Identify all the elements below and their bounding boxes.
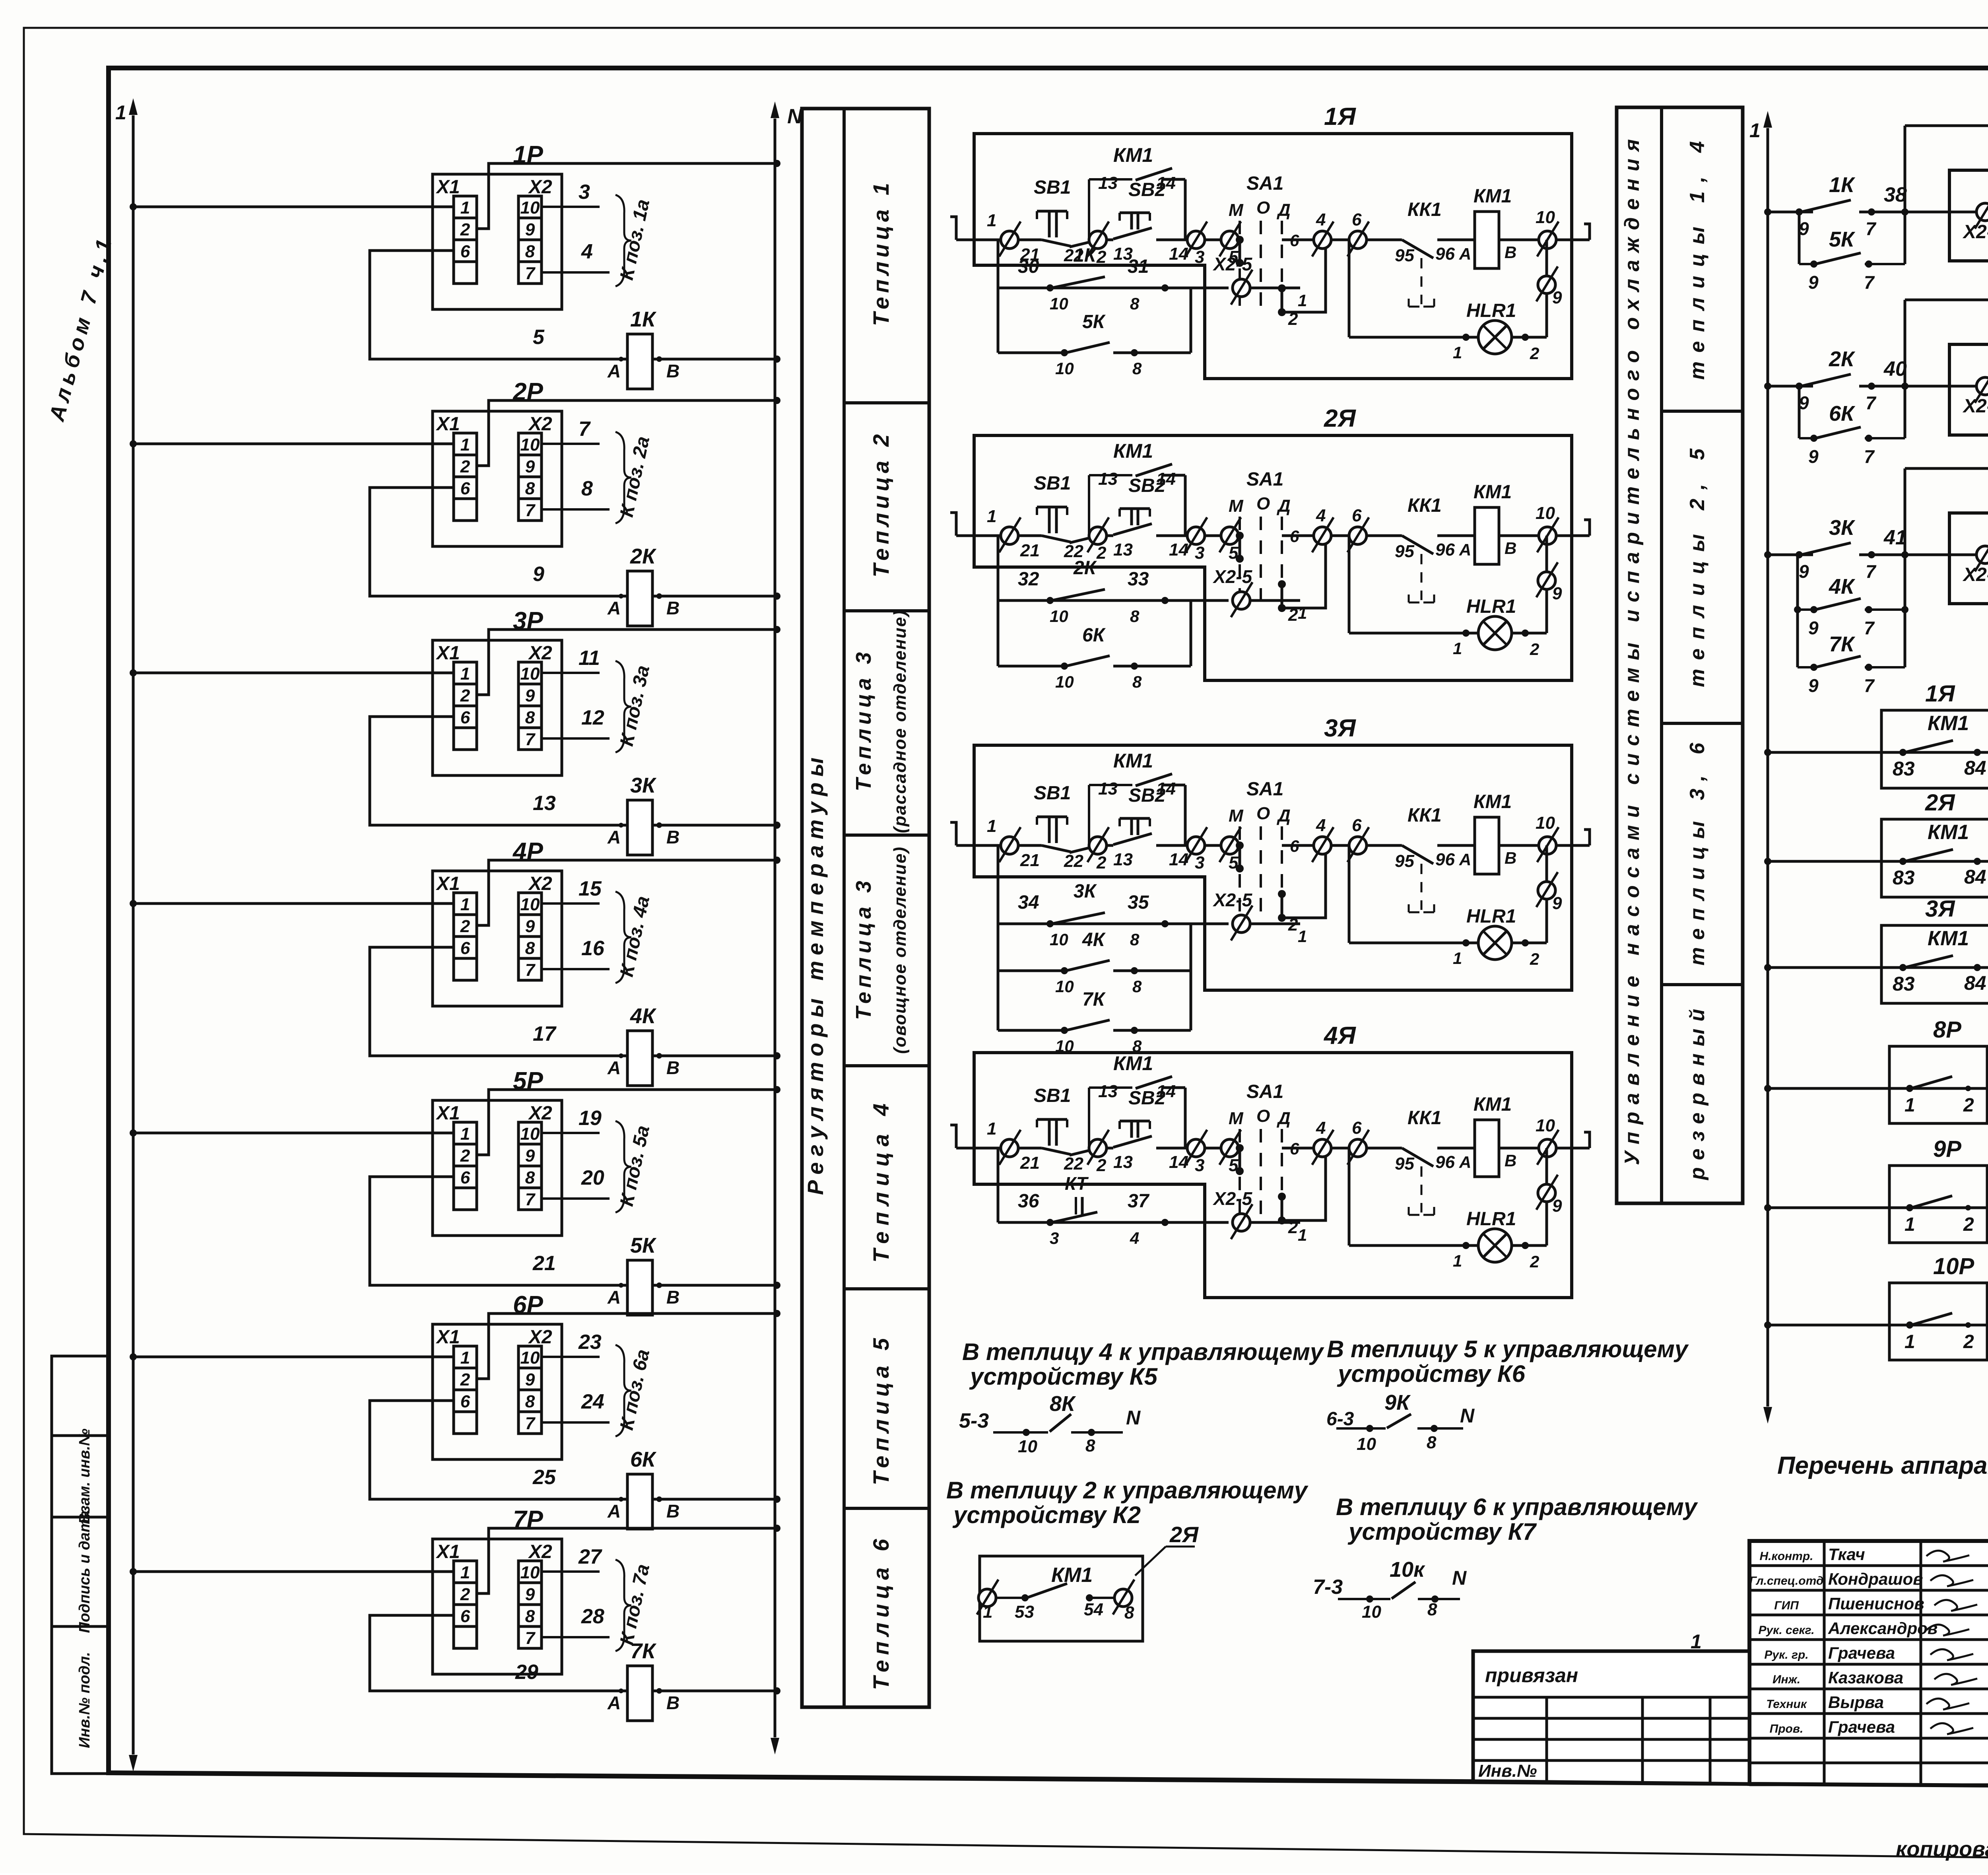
svg-text:4: 4 (1316, 210, 1326, 229)
relay box 1Я (1949, 170, 1988, 261)
svg-text:Вырва: Вырва (1828, 1693, 1884, 1712)
svg-text:13: 13 (533, 792, 556, 815)
svg-text:20: 20 (581, 1166, 604, 1189)
contact КМ1 83-84 (2Я) (1905, 849, 1953, 861)
svg-text:95: 95 (1395, 246, 1414, 265)
svg-text:2Я: 2Я (1324, 405, 1356, 432)
svg-text:2: 2 (1530, 950, 1539, 968)
relay box 3Я (1949, 513, 1988, 604)
relay circuit box 3Я (974, 745, 1572, 990)
svg-text:4К: 4К (630, 1004, 657, 1028)
wire 2К to N bus (652, 595, 777, 598)
svg-text:7-3: 7-3 (1313, 1576, 1343, 1599)
svg-text:Х2-1: Х2-1 (1962, 564, 1988, 585)
junction on bus N (773, 593, 780, 600)
svg-text:В теплицу 4 к управляющему: В теплицу 4 к управляющему (962, 1339, 1324, 1365)
svg-text:11: 11 (579, 647, 600, 670)
svg-text:В: В (666, 361, 679, 381)
svg-text:8: 8 (1130, 294, 1140, 313)
svg-text:2: 2 (460, 457, 470, 476)
svg-text:10: 10 (1050, 294, 1068, 313)
svg-text:1: 1 (460, 1348, 470, 1368)
junction on bus N (773, 1310, 780, 1317)
bypass contact 5К (1798, 212, 1801, 264)
svg-text:А: А (607, 1501, 621, 1521)
svg-text:2: 2 (1096, 247, 1107, 267)
svg-text:9: 9 (1552, 288, 1562, 307)
contact circle 2 (3Я) (1089, 837, 1107, 854)
svg-text:7: 7 (1864, 675, 1875, 696)
svg-text:3: 3 (1195, 247, 1204, 267)
svg-text:А: А (607, 1287, 621, 1308)
svg-text:теплицы 3, 6: теплицы 3, 6 (1686, 742, 1709, 966)
wire bus1 to X1-1 of 7Р (133, 1570, 454, 1573)
svg-text:SA1: SA1 (1246, 1081, 1283, 1102)
svg-text:Гл.спец.отд: Гл.спец.отд (1749, 1574, 1824, 1587)
bypass contact 7К (3Я) (998, 1029, 1066, 1032)
wire 27 from X2-10 (542, 1570, 600, 1573)
main wire (3Я) (1018, 844, 1042, 847)
bus 1 (right) (1767, 128, 1769, 1407)
svg-text:3Я: 3Я (1925, 896, 1955, 922)
wire 4К to N bus (652, 1055, 777, 1057)
svg-text:7: 7 (579, 418, 591, 441)
svg-text:Х2-1: Х2-1 (1962, 222, 1988, 243)
svg-text:9Р: 9Р (1933, 1136, 1961, 1162)
svg-text:Рук. гр.: Рук. гр. (1764, 1648, 1808, 1661)
wire X1-6 loop (1Р) (370, 251, 627, 359)
svg-text:5К: 5К (1082, 311, 1106, 332)
svg-text:8: 8 (1130, 607, 1140, 626)
svg-text:95: 95 (1395, 542, 1414, 561)
svg-text:4Я: 4Я (1323, 1022, 1356, 1049)
exit hook (1Я) (1584, 224, 1590, 240)
contact circle 10 (1Я) (1539, 231, 1556, 249)
bypass contact 13к (1905, 467, 1988, 470)
svg-text:41: 41 (1883, 526, 1907, 549)
wire X1-2 jog to N bus (1Р) (477, 163, 777, 229)
bypass return vertical (1Я) (1190, 288, 1192, 353)
svg-text:Ткач: Ткач (1828, 1545, 1865, 1564)
bypass row 30-31 (1Я) (997, 240, 1000, 353)
left bypass vertical (1904, 300, 1906, 438)
svg-text:В: В (666, 827, 679, 847)
table Регуляторы температуры (802, 109, 929, 1707)
junction on bus N (773, 1282, 780, 1289)
svg-text:3: 3 (1195, 853, 1204, 872)
junction on bus 1 (130, 1568, 137, 1575)
svg-text:8: 8 (1130, 930, 1140, 949)
contact КМ1 13-14 (4Я) (1088, 1088, 1090, 1148)
svg-text:HLR1: HLR1 (1466, 1209, 1516, 1230)
svg-text:10: 10 (1536, 813, 1555, 833)
svg-text:Теплица 2: Теплица 2 (868, 434, 893, 577)
svg-text:4К: 4К (1829, 575, 1856, 598)
svg-text:О: О (1256, 1106, 1270, 1126)
svg-text:HLR1: HLR1 (1466, 300, 1516, 321)
svg-text:21: 21 (1020, 851, 1040, 870)
relay box 2Я (1949, 344, 1988, 435)
svg-text:6: 6 (1352, 816, 1362, 835)
svg-text:Грачева: Грачева (1828, 1644, 1895, 1662)
terminal Х2-1 (2Я) (1976, 377, 1988, 395)
svg-text:4: 4 (581, 240, 593, 263)
wire 24 from X2-7 (542, 1421, 610, 1424)
contact 8Р 1-2 (1911, 1076, 1952, 1088)
contact 1К (1801, 200, 1851, 212)
svg-text:37: 37 (1128, 1191, 1150, 1212)
svg-text:14: 14 (1169, 244, 1188, 264)
svg-text:SB1: SB1 (1034, 783, 1071, 804)
svg-text:В теплицу 2 к управляющему: В теплицу 2 к управляющему (946, 1477, 1309, 1504)
svg-text:1: 1 (115, 101, 126, 124)
svg-text:А: А (607, 361, 621, 381)
wire bus1 to X1-1 of 6Р (133, 1356, 454, 1358)
svg-text:9: 9 (525, 686, 535, 705)
svg-text:ГИП: ГИП (1774, 1599, 1799, 1612)
svg-text:привязан: привязан (1485, 1664, 1578, 1687)
lamp branch wire (4Я) (1545, 1148, 1548, 1245)
contact circle 3 (1Я) (1187, 231, 1205, 249)
svg-text:8: 8 (581, 477, 593, 500)
svg-text:6: 6 (460, 1392, 470, 1411)
wire X1-2 jog to N bus (6Р) (477, 1313, 777, 1379)
wire 4 from X2-7 (542, 271, 610, 274)
contact 9Р 1-2 (1911, 1196, 1952, 1208)
junction bus 1 right (1764, 551, 1771, 558)
contact circle 9 (3Я) (1538, 882, 1555, 899)
contact КМ1 13-14 (2Я) (1088, 475, 1090, 536)
svg-text:84: 84 (1964, 866, 1986, 888)
svg-text:Теплица 3: Теплица 3 (852, 652, 876, 791)
svg-text:1: 1 (1691, 1630, 1702, 1653)
svg-text:22: 22 (1064, 1154, 1083, 1174)
svg-text:устройству К2: устройству К2 (952, 1502, 1141, 1528)
contact circle 10 (4Я) (1539, 1139, 1556, 1157)
svg-text:7: 7 (1864, 446, 1875, 467)
wire X1-2 jog to N bus (2Р) (477, 400, 777, 466)
lamp branch wire (1Я) (1545, 240, 1548, 337)
junction on bus N (773, 1086, 780, 1093)
coil 6К (627, 1474, 652, 1529)
wire X1-6 loop (2Р) (370, 488, 627, 596)
wire X1-6 loop (6Р) (370, 1401, 627, 1499)
junction on bus 1 (130, 900, 137, 907)
svg-text:10: 10 (520, 895, 540, 914)
svg-text:10: 10 (1357, 1434, 1376, 1454)
contact circle 1 (2Я) (1001, 527, 1018, 544)
svg-text:резервный: резервный (1686, 1009, 1709, 1181)
bypass contact 4К (1796, 555, 1799, 667)
svg-text:8: 8 (525, 1168, 535, 1187)
svg-text:10к: 10к (1390, 1558, 1425, 1582)
svg-text:7К: 7К (1829, 632, 1856, 656)
svg-text:6: 6 (460, 1168, 470, 1187)
svg-text:2: 2 (1288, 1218, 1298, 1237)
svg-text:2: 2 (1530, 1252, 1539, 1271)
svg-text:2К: 2К (1829, 347, 1856, 371)
svg-text:7: 7 (1866, 218, 1877, 239)
svg-text:SA1: SA1 (1246, 469, 1283, 490)
svg-text:Х1: Х1 (435, 1327, 460, 1348)
svg-text:8: 8 (525, 708, 535, 727)
junction on bus N (773, 626, 780, 633)
coil 3К (627, 800, 652, 855)
svg-text:2: 2 (1288, 605, 1298, 625)
svg-text:10: 10 (1055, 359, 1074, 378)
svg-text:Подпись и дата: Подпись и дата (76, 1510, 93, 1633)
svg-text:17: 17 (533, 1022, 557, 1045)
svg-text:В: В (1505, 849, 1516, 867)
svg-text:4: 4 (1316, 816, 1326, 835)
svg-text:10: 10 (1536, 1116, 1555, 1135)
svg-text:23: 23 (578, 1331, 602, 1354)
svg-text:2: 2 (460, 917, 470, 936)
svg-text:12: 12 (581, 706, 604, 729)
main wire (2Я) (1018, 534, 1042, 537)
wire X1-2 jog to N bus (4Р) (477, 860, 777, 925)
relay box 2Я (note) (980, 1556, 1143, 1641)
svg-text:1: 1 (460, 1124, 470, 1144)
lamp branch wire (2Я) (1545, 536, 1548, 633)
svg-text:53: 53 (1015, 1602, 1034, 1622)
svg-text:1: 1 (1905, 1214, 1915, 1235)
svg-text:6: 6 (1290, 1139, 1299, 1158)
svg-text:Х2-5: Х2-5 (1212, 254, 1253, 274)
svg-text:13: 13 (1098, 469, 1118, 489)
svg-text:30: 30 (1018, 256, 1039, 277)
svg-text:В: В (1505, 1151, 1516, 1170)
svg-text:3: 3 (579, 181, 590, 204)
svg-text:6: 6 (1290, 231, 1299, 250)
svg-text:7: 7 (1864, 272, 1875, 293)
svg-text:Теплица 5: Теплица 5 (868, 1338, 893, 1485)
svg-text:КК1: КК1 (1408, 1108, 1442, 1129)
svg-text:8: 8 (525, 479, 535, 498)
svg-text:1: 1 (1453, 639, 1462, 658)
junction on bus N (773, 1052, 780, 1059)
svg-text:9: 9 (1808, 446, 1819, 467)
svg-text:35: 35 (1128, 892, 1149, 913)
svg-text:КМ1: КМ1 (1113, 750, 1153, 772)
svg-text:10: 10 (1050, 607, 1068, 626)
svg-text:7: 7 (1866, 561, 1877, 582)
svg-text:6К: 6К (630, 1448, 657, 1471)
svg-text:32: 32 (1018, 569, 1039, 590)
svg-text:SB1: SB1 (1034, 177, 1071, 198)
svg-text:2: 2 (460, 1585, 470, 1604)
svg-text:Казакова: Казакова (1828, 1668, 1903, 1687)
contact circle 3 (3Я) (1187, 837, 1205, 854)
svg-text:5К: 5К (630, 1234, 657, 1257)
wire 20 from X2-7 (542, 1197, 610, 1200)
svg-text:В: В (1505, 243, 1516, 262)
svg-text:2: 2 (1963, 1214, 1974, 1235)
svg-text:8: 8 (1124, 1603, 1134, 1622)
svg-text:7: 7 (1866, 392, 1877, 413)
svg-text:6: 6 (1290, 527, 1299, 546)
svg-text:Теплица 6: Теплица 6 (868, 1539, 893, 1690)
svg-text:6-3: 6-3 (1326, 1409, 1354, 1430)
svg-text:6К: 6К (1829, 402, 1856, 426)
svg-text:9: 9 (525, 220, 535, 239)
contact circle 9 (2Я) (1538, 572, 1555, 589)
wire X1-6 loop (3Р) (370, 717, 627, 825)
svg-text:10: 10 (520, 198, 540, 218)
wire 5К to N bus (652, 1284, 777, 1287)
svg-text:N: N (1452, 1567, 1467, 1589)
svg-text:Д: Д (1276, 200, 1291, 220)
bypass return vertical (2Я) (1190, 600, 1192, 666)
svg-text:Д: Д (1276, 496, 1291, 516)
svg-text:10: 10 (1055, 977, 1074, 996)
svg-text:Техник: Техник (1766, 1698, 1807, 1711)
contact 2К (2Я) (1052, 589, 1105, 600)
svg-text:В: В (666, 1692, 679, 1713)
svg-text:2Я: 2Я (1925, 790, 1955, 816)
contact 3К (1801, 543, 1851, 555)
привязан box (1473, 1651, 1749, 1784)
svg-text:В теплицу 5 к управляющему: В теплицу 5 к управляющему (1327, 1336, 1689, 1362)
junction on bus 1 (130, 669, 137, 676)
svg-text:9: 9 (1808, 272, 1819, 293)
wire bus1 to X1-1 of 4Р (133, 902, 454, 905)
junction bus 1 right (1764, 1204, 1771, 1211)
regulator block 3Р (433, 640, 562, 775)
junction on bus 1 (130, 1129, 137, 1137)
svg-text:13: 13 (1098, 779, 1118, 799)
junction on bus N (773, 356, 780, 363)
svg-text:96: 96 (1435, 244, 1455, 264)
contact circle 6 (4Я) (1349, 1139, 1367, 1157)
svg-text:96: 96 (1435, 1152, 1455, 1172)
bypass row 32-33 (2Я) (997, 536, 1000, 666)
svg-text:10: 10 (520, 664, 540, 684)
svg-text:М: М (1229, 806, 1244, 826)
svg-text:КМ1: КМ1 (1474, 482, 1512, 503)
svg-text:1: 1 (1298, 291, 1307, 310)
svg-text:13: 13 (1098, 1082, 1118, 1101)
svg-text:2К: 2К (630, 544, 657, 568)
contact КМ1 83-84 (1Я) (1905, 740, 1953, 752)
contactor coil КМ1 (3Я) (1475, 817, 1499, 874)
svg-text:1: 1 (1905, 1095, 1915, 1116)
contact circle 2 (2Я) (1089, 527, 1107, 544)
junction bus 1 right (1764, 964, 1771, 971)
svg-text:3: 3 (1195, 543, 1204, 563)
svg-text:КМ1: КМ1 (1113, 144, 1153, 166)
svg-text:В: В (666, 1057, 679, 1078)
svg-text:14: 14 (1169, 540, 1188, 560)
svg-text:Д: Д (1276, 1109, 1291, 1128)
contact circle 5 (3Я) (1221, 837, 1239, 854)
svg-text:КК1: КК1 (1408, 199, 1442, 220)
svg-text:1: 1 (460, 664, 470, 684)
regulator block 1Р (433, 174, 562, 309)
junction on bus 1 (130, 1353, 137, 1360)
brace к поз.4а (615, 892, 631, 983)
svg-text:28: 28 (581, 1605, 604, 1628)
svg-text:2: 2 (1096, 1156, 1107, 1175)
svg-text:М: М (1229, 1109, 1244, 1128)
svg-text:А: А (607, 598, 621, 618)
main wire (1Я) (1018, 239, 1042, 241)
junction on bus N (773, 822, 780, 829)
junction on bus N (773, 1687, 780, 1694)
svg-text:1К: 1К (1074, 245, 1097, 266)
svg-text:В: В (666, 1501, 679, 1521)
junction on bus 1 (130, 440, 137, 447)
svg-text:10: 10 (1055, 672, 1074, 691)
lamp branch wire (3Я) (1545, 845, 1548, 943)
contactor coil КМ1 (4Я) (1475, 1120, 1499, 1177)
bypass row 36-37 (4Я) (997, 1148, 1000, 1222)
svg-text:Х2-5: Х2-5 (1212, 566, 1253, 587)
svg-text:1: 1 (1453, 949, 1462, 968)
wire entry (4Я) (950, 1125, 956, 1148)
svg-text:1К: 1К (1829, 173, 1856, 197)
svg-text:1: 1 (1905, 1331, 1915, 1352)
svg-text:21: 21 (1020, 541, 1040, 560)
wire 6К to N bus (652, 1498, 777, 1501)
svg-text:6: 6 (1352, 210, 1362, 229)
contact КМ1 83-84 (3Я) (1905, 956, 1953, 968)
svg-text:5К: 5К (1829, 227, 1856, 251)
contact circle 5 (1Я) (1221, 231, 1239, 249)
svg-text:24: 24 (581, 1390, 604, 1413)
svg-text:3К: 3К (1074, 881, 1097, 902)
svg-text:36: 36 (1018, 1191, 1039, 1212)
contact circle 6 (3Я) (1349, 837, 1367, 854)
svg-text:А: А (1459, 850, 1471, 869)
svg-text:Теплица 1: Теплица 1 (868, 183, 893, 326)
svg-text:29: 29 (515, 1661, 538, 1684)
bypass contact 7К (1798, 666, 1817, 668)
svg-text:27: 27 (578, 1545, 602, 1568)
svg-text:Х1: Х1 (435, 873, 460, 894)
terminal Х2-5 (3Я) (1233, 915, 1250, 933)
svg-text:Х2: Х2 (528, 1541, 552, 1562)
svg-text:8К: 8К (1050, 1392, 1076, 1416)
wire entry (3Я) (950, 822, 956, 845)
svg-text:8: 8 (525, 1607, 535, 1626)
svg-text:10: 10 (1050, 930, 1068, 949)
brace к поз.7а (615, 1560, 631, 1651)
wire X1-6 loop (4Р) (370, 947, 627, 1056)
svg-text:14: 14 (1169, 1152, 1188, 1172)
svg-text:1: 1 (987, 507, 996, 526)
wire 8 from X2-7 (542, 508, 610, 511)
svg-text:В: В (1505, 539, 1516, 558)
exit hook (4Я) (1584, 1132, 1590, 1148)
table Управление насосами (1617, 107, 1743, 1203)
svg-text:1: 1 (1298, 1226, 1307, 1244)
svg-text:1Я: 1Я (1925, 681, 1955, 707)
svg-text:1: 1 (1298, 927, 1307, 946)
exit hook (2Я) (1584, 520, 1590, 536)
svg-text:14: 14 (1169, 850, 1188, 869)
svg-text:7: 7 (525, 960, 536, 980)
wire 7К to N bus (652, 1690, 777, 1692)
svg-text:КК1: КК1 (1408, 805, 1442, 826)
svg-text:4: 4 (1316, 506, 1326, 525)
svg-text:2: 2 (1096, 853, 1107, 872)
wire entry (1Я) (950, 217, 956, 240)
svg-text:2: 2 (1963, 1095, 1974, 1116)
svg-text:21: 21 (1020, 1153, 1040, 1173)
svg-text:8: 8 (525, 242, 535, 261)
svg-text:1: 1 (1453, 343, 1462, 362)
